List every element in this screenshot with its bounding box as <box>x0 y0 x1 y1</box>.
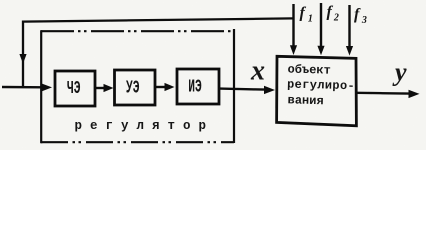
wire CHE to UE <box>96 87 106 89</box>
arrowhead f3 into object <box>346 46 353 56</box>
svg-text:УЭ: УЭ <box>126 78 140 98</box>
arrowhead CHE to UE <box>104 84 114 92</box>
box UE (amplifying element) <box>115 70 156 105</box>
svg-text:объект: объект <box>287 62 331 78</box>
wire feedforward top: from f1 node across top, down left side to input line <box>23 18 294 86</box>
wire f2 vertical <box>320 3 322 48</box>
svg-text:x: x <box>250 56 265 87</box>
svg-text:регулятор: регулятор <box>75 119 215 133</box>
arrowhead f1 into object <box>290 45 297 55</box>
arrowhead input into CHE <box>41 83 52 91</box>
arrowhead UE to IE <box>165 83 175 91</box>
svg-text:y: y <box>392 57 407 86</box>
arrowhead f2 into object <box>317 46 324 56</box>
dash-dot box regulator <box>41 29 234 143</box>
box object of regulation <box>277 56 357 126</box>
wire output (signal y) <box>357 92 410 95</box>
box CHE (sensing element) <box>55 71 95 106</box>
svg-text:вания: вания <box>287 93 323 108</box>
arrowhead x into object <box>264 86 275 94</box>
svg-text:ИЭ: ИЭ <box>188 77 202 97</box>
arrowhead output y <box>409 90 420 98</box>
wire UE to IE <box>155 86 166 88</box>
wire input main line <box>2 86 43 89</box>
wire f1 vertical <box>292 4 294 47</box>
wire f3 vertical <box>348 5 350 48</box>
svg-text:ЧЭ: ЧЭ <box>67 79 81 99</box>
svg-text:регулиро-: регулиро- <box>287 78 355 94</box>
wire IE to object (signal x) <box>220 89 266 90</box>
arrowhead down on feedforward drop <box>19 54 26 64</box>
box IE (actuating element) <box>177 69 219 104</box>
